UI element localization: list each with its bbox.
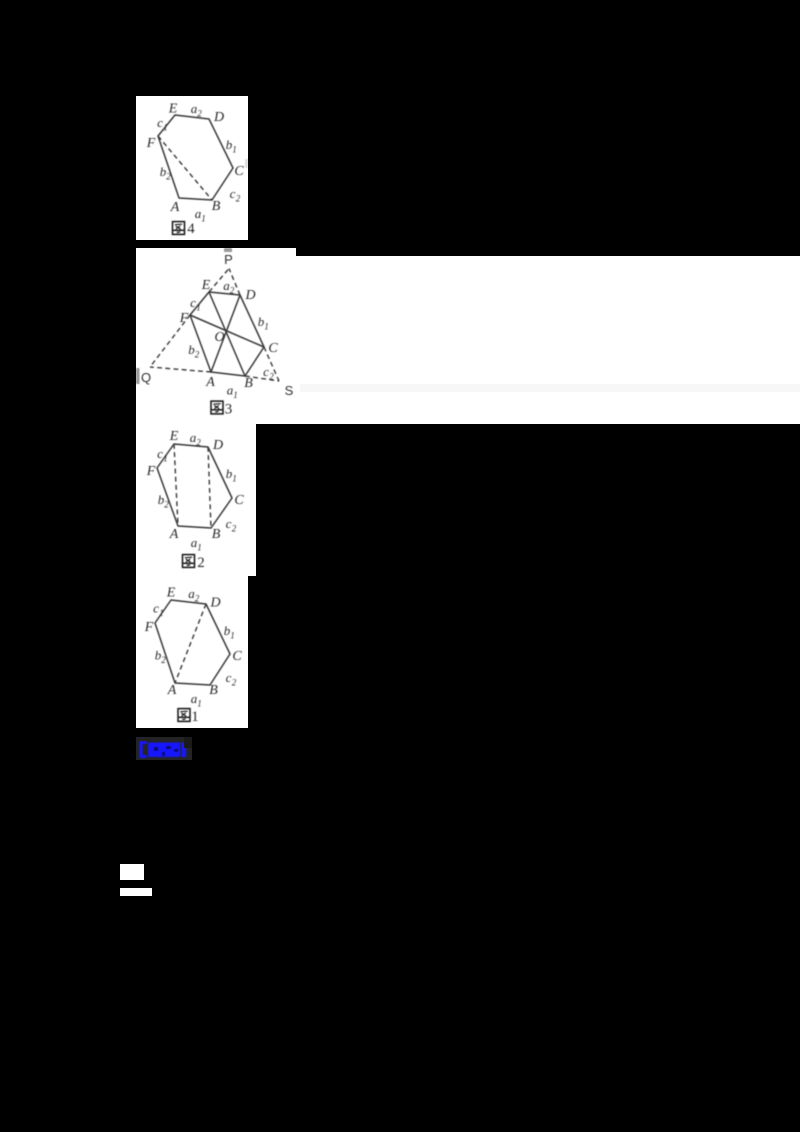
svg-text:2: 2 [269, 372, 274, 382]
svg-text:2: 2 [166, 172, 171, 182]
svg-text:2: 2 [195, 594, 200, 604]
svg-text:A: A [167, 683, 177, 698]
svg-text:c: c [263, 364, 269, 379]
svg-text:O: O [214, 330, 224, 345]
svg-text:2: 2 [230, 286, 235, 296]
svg-text:3: 3 [225, 402, 233, 418]
svg-text:1: 1 [163, 123, 168, 133]
svg-text:Q: Q [141, 370, 151, 385]
svg-text:1: 1 [159, 608, 164, 618]
svg-text:1: 1 [196, 303, 201, 313]
svg-text:c: c [157, 446, 163, 461]
svg-text:1: 1 [232, 474, 237, 484]
svg-text:D: D [213, 110, 224, 125]
svg-text:C: C [232, 649, 242, 664]
svg-text:C: C [268, 341, 278, 356]
svg-text:C: C [234, 493, 244, 508]
svg-text:D: D [209, 596, 220, 611]
svg-text:2: 2 [232, 678, 237, 688]
svg-text:1: 1 [197, 699, 202, 709]
svg-text:S: S [285, 383, 294, 398]
svg-text:A: A [205, 375, 215, 390]
svg-text:c: c [153, 601, 159, 616]
svg-text:2: 2 [164, 500, 169, 510]
svg-text:4: 4 [187, 221, 195, 237]
svg-text:B: B [209, 683, 218, 698]
svg-text:F: F [146, 464, 156, 479]
svg-text:D: D [212, 438, 223, 453]
svg-text:P: P [224, 252, 233, 267]
svg-text:F: F [179, 311, 189, 326]
svg-text:E: E [166, 586, 176, 601]
svg-text:E: E [201, 278, 211, 293]
svg-text:c: c [226, 516, 232, 531]
svg-text:B: B [212, 527, 221, 542]
svg-text:2: 2 [197, 109, 202, 119]
svg-text:B: B [212, 199, 221, 214]
svg-text:A: A [170, 200, 180, 215]
svg-text:A: A [169, 527, 179, 542]
svg-text:2: 2 [161, 655, 166, 665]
svg-text:1: 1 [163, 454, 168, 464]
svg-text:C: C [234, 164, 244, 179]
svg-text:B: B [244, 376, 253, 391]
svg-text:c: c [157, 115, 163, 130]
svg-text:2: 2 [196, 438, 201, 448]
svg-text:c: c [190, 295, 196, 310]
svg-text:2: 2 [197, 555, 205, 571]
svg-text:1: 1 [264, 322, 269, 332]
svg-text:2: 2 [232, 524, 237, 534]
svg-text:2: 2 [236, 194, 241, 204]
svg-text:1: 1 [197, 543, 202, 553]
svg-text:F: F [144, 620, 154, 635]
svg-text:E: E [168, 102, 178, 117]
svg-text:1: 1 [232, 145, 237, 155]
svg-text:F: F [146, 136, 156, 151]
svg-text:2: 2 [195, 350, 200, 360]
svg-text:c: c [226, 670, 232, 685]
svg-text:1: 1 [233, 390, 238, 400]
svg-text:E: E [169, 429, 179, 444]
svg-text:1: 1 [230, 631, 235, 641]
svg-text:1: 1 [201, 214, 206, 224]
svg-text:1: 1 [191, 709, 199, 725]
svg-text:D: D [244, 288, 255, 303]
svg-text:c: c [230, 186, 236, 201]
